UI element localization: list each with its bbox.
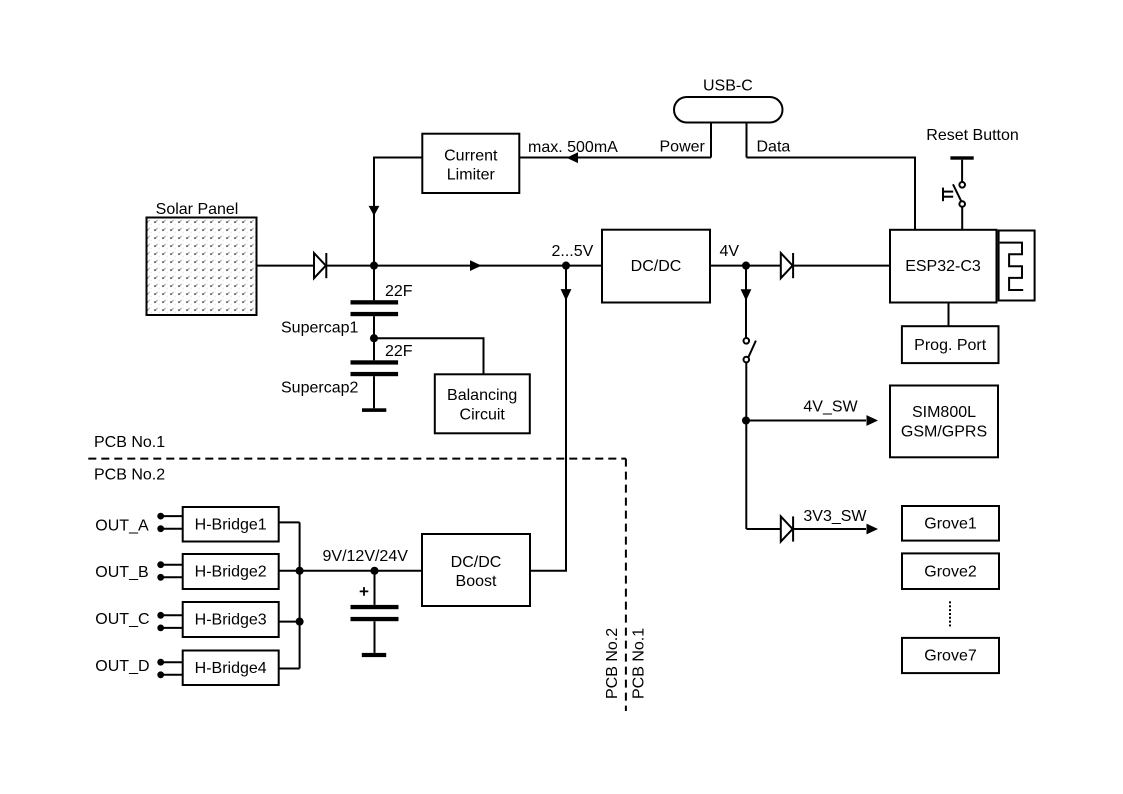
svg-text:OUT_B: OUT_B xyxy=(95,564,148,581)
svg-text:H-Bridge4: H-Bridge4 xyxy=(195,660,267,677)
svg-text:OUT_C: OUT_C xyxy=(95,611,149,628)
current limiter U1 xyxy=(422,134,519,193)
svg-text:OUT_D: OUT_D xyxy=(95,658,149,675)
node junction between supercaps xyxy=(370,334,378,342)
solar panel PV1 xyxy=(147,201,257,315)
svg-text:PCB No.1: PCB No.1 xyxy=(94,434,165,451)
wire H-Bridge3 to bus xyxy=(279,621,300,623)
supercap C1 xyxy=(281,266,413,339)
node 4V_SW junction xyxy=(742,416,750,424)
svg-text:Solar Panel: Solar Panel xyxy=(156,201,239,218)
svg-text:3V3_SW: 3V3_SW xyxy=(803,508,867,525)
Grove1 connector xyxy=(902,506,999,541)
svg-text:H-Bridge2: H-Bridge2 xyxy=(195,564,267,581)
wire bus to DC/DC boost xyxy=(300,570,422,572)
arrowhead right 3V3_SW xyxy=(867,524,879,535)
balancing circuit U2 xyxy=(435,374,530,433)
svg-text:Prog. Port: Prog. Port xyxy=(914,337,987,354)
wire junction to balancing circuit xyxy=(374,338,484,374)
ground below supercap2 xyxy=(362,408,386,412)
diode D2 xyxy=(781,253,793,278)
svg-text:Grove1: Grove1 xyxy=(924,516,977,533)
svg-text:Supercap1: Supercap1 xyxy=(281,319,358,336)
svg-text:Grove2: Grove2 xyxy=(924,563,977,580)
wire 4V junction down to switch xyxy=(745,266,747,338)
node 2...5V junction xyxy=(562,262,570,270)
svg-text:Reset Button: Reset Button xyxy=(926,127,1019,144)
switch S2 xyxy=(744,338,756,362)
svg-text:Boost: Boost xyxy=(456,573,497,590)
svg-text:Limiter: Limiter xyxy=(447,167,496,184)
ground below C3 xyxy=(362,653,386,657)
wire H-Bridge2 to bus xyxy=(279,570,300,572)
DC/DC converter U3 xyxy=(602,230,710,303)
reset button S1 xyxy=(926,127,1019,230)
H-Bridge2 xyxy=(183,554,279,589)
svg-text:H-Bridge1: H-Bridge1 xyxy=(195,516,267,533)
svg-text:Current: Current xyxy=(444,148,498,165)
SIM800L module U5 xyxy=(890,386,998,458)
Grove2 connector xyxy=(902,553,999,589)
wire H-Bridge1 to bus xyxy=(279,521,300,523)
svg-text:ESP32-C3: ESP32-C3 xyxy=(905,258,981,275)
PCB separator dashed vertical xyxy=(625,459,627,711)
svg-text:Grove7: Grove7 xyxy=(924,648,977,665)
node 4V junction xyxy=(742,262,750,270)
pins H-Bridge1 xyxy=(157,513,182,532)
svg-text:PCB No.1: PCB No.1 xyxy=(630,628,647,699)
pins H-Bridge3 xyxy=(157,612,182,631)
node motor rail junction xyxy=(370,567,378,575)
svg-text:DC/DC: DC/DC xyxy=(451,554,502,571)
wire 3V3 branch to diode D3 xyxy=(746,528,781,530)
diode D1 xyxy=(314,253,326,278)
H-Bridge4 xyxy=(183,651,279,686)
node bus junction H-Bridge2 xyxy=(296,567,304,575)
antenna box of ESP32 xyxy=(999,231,1035,301)
svg-text:H-Bridge3: H-Bridge3 xyxy=(195,612,267,629)
svg-text:Circuit: Circuit xyxy=(460,406,506,423)
wire USB data stub xyxy=(746,123,748,158)
pins H-Bridge4 xyxy=(157,659,182,678)
H-Bridge3 xyxy=(183,602,279,637)
svg-text:2...5V: 2...5V xyxy=(552,243,594,260)
svg-text:Power: Power xyxy=(660,139,706,156)
svg-text:4V: 4V xyxy=(720,243,740,260)
node junction at supercap column xyxy=(370,262,378,270)
wire DC/DC to diode D2 xyxy=(710,265,781,267)
svg-text:OUT_A: OUT_A xyxy=(95,517,149,534)
prog port J2 xyxy=(902,326,999,363)
pins H-Bridge2 xyxy=(157,561,182,580)
wire boost output up to 2...5V node xyxy=(530,266,566,571)
wire D2 to ESP32 xyxy=(794,265,890,267)
ESP32-C3 module U4 xyxy=(890,230,997,303)
wire 4V_SW to SIM800L xyxy=(746,420,866,422)
svg-text:PCB No.2: PCB No.2 xyxy=(94,467,165,484)
diode D3 xyxy=(781,516,793,541)
wire H-bridge vertical bus xyxy=(299,522,301,668)
svg-text:SIM800L: SIM800L xyxy=(912,404,976,421)
svg-text:USB-C: USB-C xyxy=(703,78,753,95)
wire solar panel to diode D1 xyxy=(257,265,315,267)
svg-text:22F: 22F xyxy=(385,343,413,360)
wire current limiter left lead down to junction xyxy=(374,158,422,301)
arrowhead left on power wire xyxy=(567,152,579,163)
USB-C connector J1 xyxy=(674,78,783,123)
arrowhead down on 4V feed xyxy=(741,289,752,301)
wire H-Bridge4 to bus xyxy=(279,668,300,670)
wire USB power stub xyxy=(710,123,712,158)
dotted ellipsis between Grove2 and Grove7 xyxy=(949,601,951,626)
electrolytic capacitor C3 xyxy=(351,571,399,653)
PCB separator dashed horizontal xyxy=(88,458,626,460)
svg-text:9V/12V/24V: 9V/12V/24V xyxy=(323,548,409,565)
arrowhead down on current limiter feed xyxy=(369,206,380,216)
arrowhead down below 2...5V node xyxy=(561,289,572,301)
wire USB power to current limiter xyxy=(519,157,711,159)
svg-text:22F: 22F xyxy=(385,283,413,300)
svg-text:Balancing: Balancing xyxy=(447,387,517,404)
svg-text:GSM/GPRS: GSM/GPRS xyxy=(901,423,987,440)
antenna meander xyxy=(1000,243,1024,290)
arrowhead right 4V_SW xyxy=(867,415,879,426)
svg-text:Supercap2: Supercap2 xyxy=(281,379,358,396)
wire switch down to 3V3 branch xyxy=(745,362,747,529)
arrowhead on main bus xyxy=(470,260,482,271)
wire D3 to Grove xyxy=(794,528,866,530)
svg-text:PCB No.2: PCB No.2 xyxy=(604,628,621,699)
wire ESP32 to prog port xyxy=(948,303,950,327)
Grove7 connector xyxy=(902,638,999,673)
svg-text:max. 500mA: max. 500mA xyxy=(528,139,618,156)
H-Bridge1 xyxy=(183,507,279,542)
node bus junction H-Bridge3 xyxy=(296,618,304,626)
DC/DC boost converter U6 xyxy=(422,534,530,606)
svg-text:4V_SW: 4V_SW xyxy=(803,399,858,416)
wire data to ESP32 xyxy=(747,158,916,230)
wire main bus D1 to DC/DC xyxy=(327,265,602,267)
supercap C2 xyxy=(281,338,413,408)
svg-text:DC/DC: DC/DC xyxy=(631,258,682,275)
svg-text:Data: Data xyxy=(757,139,791,156)
